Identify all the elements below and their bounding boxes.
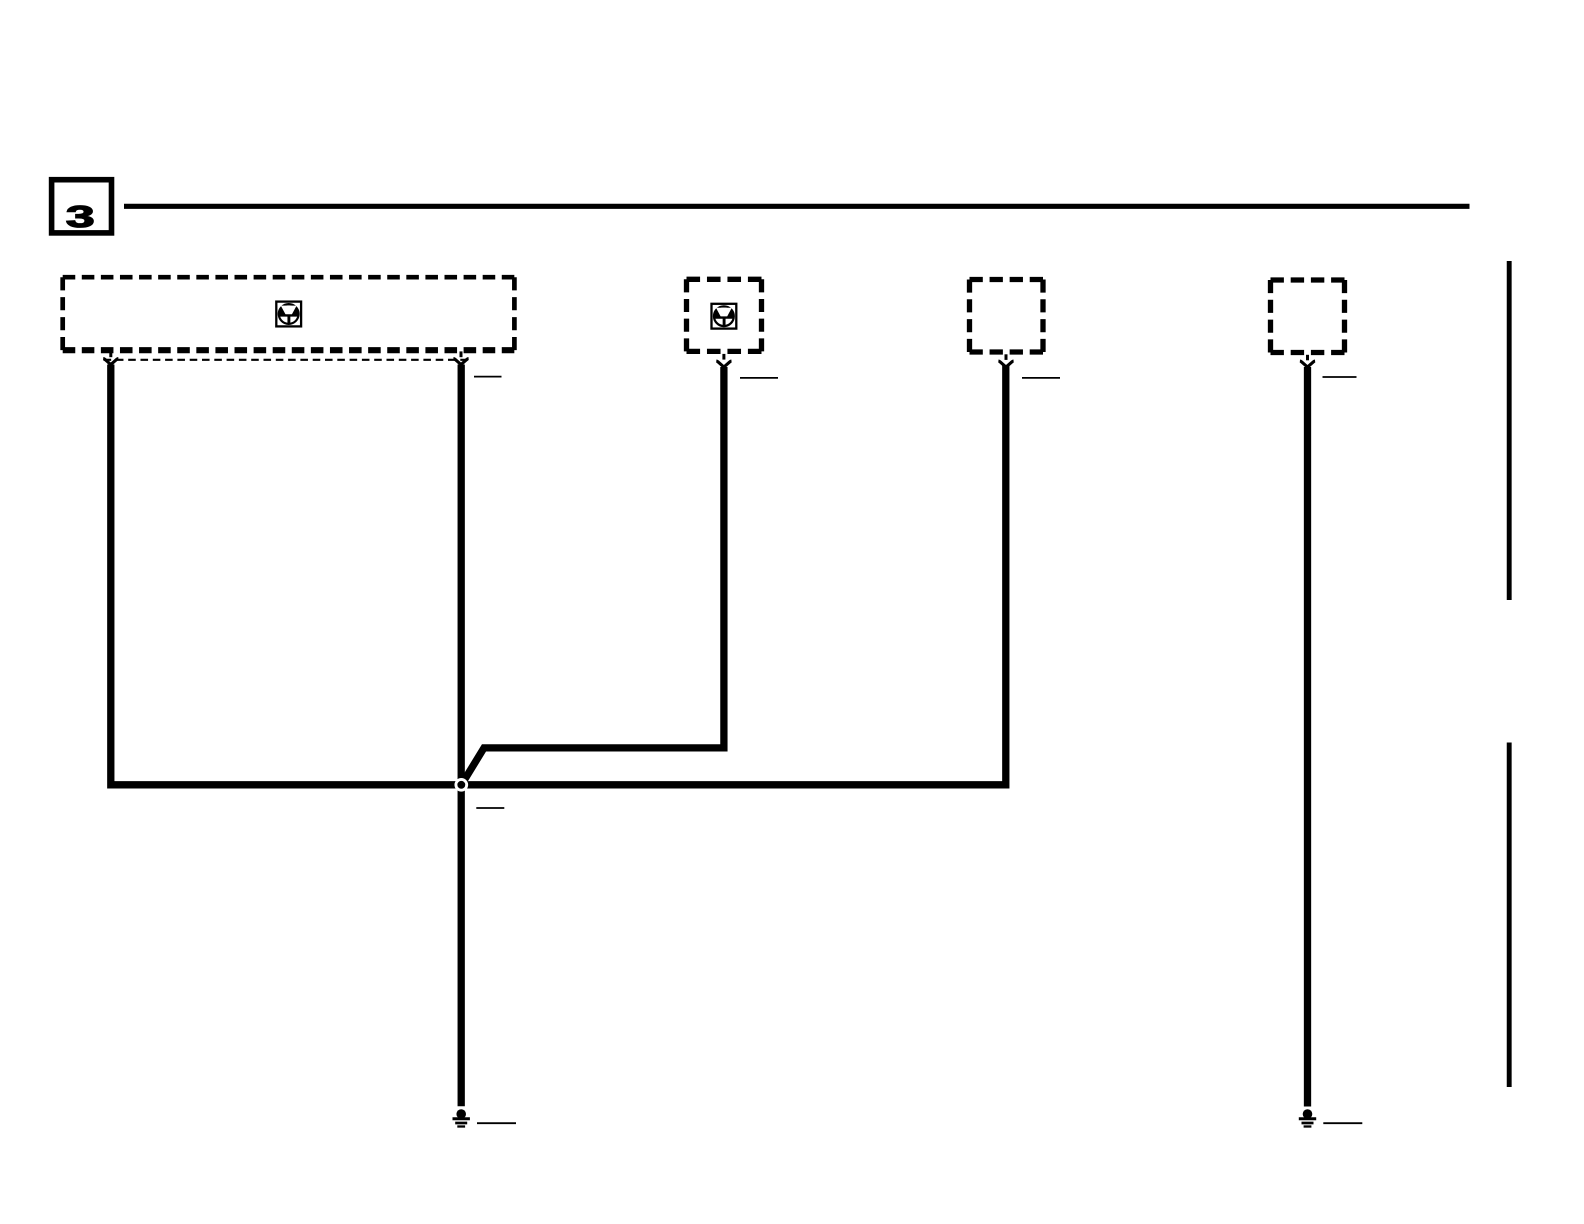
- pin arrow E: [1300, 361, 1315, 367]
- right margin bar 1: [1507, 261, 1512, 600]
- component box U1 (dashed): [63, 277, 515, 350]
- connector pin stubs: [111, 351, 1308, 360]
- ground G1: [453, 1109, 470, 1126]
- component box U4 (dashed): [1271, 280, 1345, 353]
- component box U2 (dashed): [687, 279, 762, 351]
- right margin bar 2: [1507, 743, 1512, 1088]
- wire: box U4 straight down to ground: [1304, 367, 1311, 1107]
- top rule: [124, 204, 1470, 209]
- svg-text:3: 3: [66, 200, 95, 235]
- pin arrow A: [103, 359, 118, 365]
- ground G2: [1299, 1109, 1316, 1126]
- wire: box U2 down, left, diagonal into junction: [461, 367, 724, 785]
- junction node (ringed dot): [456, 779, 467, 790]
- page index box 3: [52, 180, 112, 235]
- wire label D: [1022, 377, 1060, 379]
- wire label B: [474, 376, 502, 378]
- component box U3 (dashed): [970, 280, 1044, 353]
- junction label: [476, 807, 504, 809]
- steering wheel icon (big box): [276, 302, 301, 327]
- wire label E: [1323, 376, 1357, 378]
- ground G2 label: [1323, 1122, 1362, 1124]
- ground G1 label: [477, 1122, 516, 1124]
- steering wheel icon (box U2): [712, 304, 737, 329]
- pin bus dashed line (big box pins): [104, 359, 468, 361]
- pin arrow C: [716, 361, 731, 367]
- pin arrow D: [998, 361, 1013, 367]
- wire: left pin down, across bottom, up to box U3: [111, 365, 1006, 785]
- pin arrow B: [453, 359, 468, 365]
- wire: right pin of big box straight down to ground: [458, 365, 465, 1107]
- wire label C: [740, 377, 778, 379]
